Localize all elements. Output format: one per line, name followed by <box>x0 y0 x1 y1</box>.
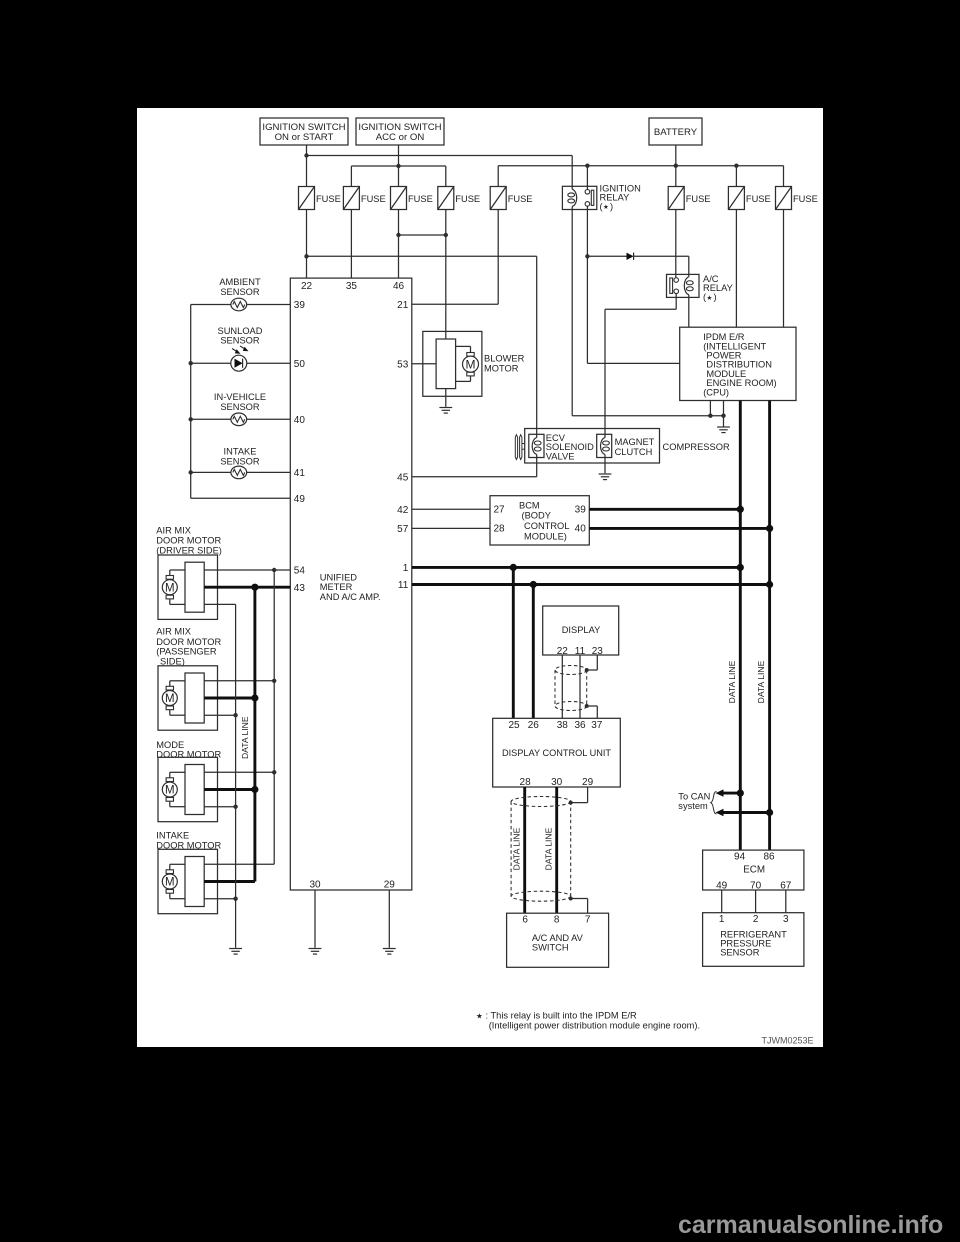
svg-text:M: M <box>466 358 476 372</box>
svg-text:39: 39 <box>294 300 306 311</box>
svg-text:RELAY: RELAY <box>703 283 733 293</box>
svg-text:28: 28 <box>520 777 532 788</box>
svg-text:(Intelligent power distributio: (Intelligent power distribution module e… <box>489 1021 700 1031</box>
svg-text:M: M <box>165 877 175 889</box>
svg-text:INTAKE: INTAKE <box>224 447 257 457</box>
svg-text:ON or START: ON or START <box>275 132 334 143</box>
svg-text:ECM: ECM <box>743 865 765 876</box>
svg-text:SENSOR: SENSOR <box>720 947 760 957</box>
svg-text:36: 36 <box>574 720 586 731</box>
svg-text:38: 38 <box>557 720 569 731</box>
svg-text:carmanualsonline.info: carmanualsonline.info <box>678 1211 943 1239</box>
svg-text:50: 50 <box>294 359 306 370</box>
svg-text:37: 37 <box>591 720 603 731</box>
svg-text:FUSE: FUSE <box>316 194 341 204</box>
svg-text:46: 46 <box>393 281 405 292</box>
svg-text:SENSOR: SENSOR <box>220 457 260 467</box>
svg-text:30: 30 <box>309 880 321 891</box>
svg-text:7: 7 <box>585 914 591 925</box>
svg-text:M: M <box>165 693 175 705</box>
svg-text:SENSOR: SENSOR <box>220 402 260 412</box>
svg-text:IGNITION SWITCH: IGNITION SWITCH <box>262 122 345 133</box>
svg-text:FUSE: FUSE <box>508 194 533 204</box>
svg-text:COMPRESSOR: COMPRESSOR <box>663 442 730 452</box>
svg-text:22: 22 <box>301 281 313 292</box>
svg-text:6: 6 <box>522 914 528 925</box>
svg-text:FUSE: FUSE <box>455 194 480 204</box>
svg-text:CLUTCH: CLUTCH <box>615 447 653 457</box>
svg-text:FUSE: FUSE <box>746 194 771 204</box>
svg-text:system: system <box>678 801 708 811</box>
svg-text:29: 29 <box>582 777 594 788</box>
svg-text:27: 27 <box>494 505 506 516</box>
svg-text:57: 57 <box>397 524 409 535</box>
svg-text:CONTROL: CONTROL <box>524 521 569 531</box>
svg-text:2: 2 <box>753 914 759 925</box>
svg-text:AIR MIX: AIR MIX <box>156 627 191 637</box>
svg-text:DOOR MOTOR: DOOR MOTOR <box>156 637 221 647</box>
svg-text:41: 41 <box>294 468 306 479</box>
svg-text:53: 53 <box>397 359 409 370</box>
svg-text:70: 70 <box>750 881 762 892</box>
svg-text:DISPLAY CONTROL UNIT: DISPLAY CONTROL UNIT <box>502 748 611 758</box>
svg-text:42: 42 <box>397 505 409 516</box>
svg-text:67: 67 <box>780 881 792 892</box>
svg-text:28: 28 <box>494 524 506 535</box>
svg-text:40: 40 <box>575 524 587 535</box>
svg-text:DOOR MOTOR: DOOR MOTOR <box>156 840 221 850</box>
svg-text:UNIFIED: UNIFIED <box>320 573 357 583</box>
svg-text:1: 1 <box>403 563 409 574</box>
svg-text:SIDE): SIDE) <box>160 656 185 666</box>
svg-text:54: 54 <box>294 566 306 577</box>
svg-text:FUSE: FUSE <box>793 194 818 204</box>
svg-text:DATA LINE: DATA LINE <box>727 660 737 703</box>
svg-text:★: ★ <box>476 1011 483 1020</box>
svg-text:DATA LINE: DATA LINE <box>512 827 522 870</box>
svg-text:: This relay is built into the: : This relay is built into the IPDM E/R <box>486 1010 638 1020</box>
svg-text:39: 39 <box>575 505 587 516</box>
svg-text:3: 3 <box>783 914 789 925</box>
svg-text:SWITCH: SWITCH <box>532 942 569 952</box>
svg-text:DISPLAY: DISPLAY <box>562 625 601 635</box>
svg-text:DATA LINE: DATA LINE <box>240 716 250 759</box>
svg-text:21: 21 <box>397 300 409 311</box>
svg-text:29: 29 <box>384 880 396 891</box>
svg-text:FUSE: FUSE <box>686 194 711 204</box>
svg-text:40: 40 <box>294 415 306 426</box>
svg-text:MAGNET: MAGNET <box>615 437 655 447</box>
svg-text:★: ★ <box>707 294 713 302</box>
svg-text:M: M <box>165 582 175 594</box>
svg-text:RELAY: RELAY <box>600 192 630 202</box>
svg-text:94: 94 <box>734 852 746 863</box>
svg-text:BCM: BCM <box>519 500 540 510</box>
svg-text:IN-VEHICLE: IN-VEHICLE <box>214 392 266 402</box>
svg-text:): ) <box>714 292 717 302</box>
svg-text:DOOR MOTOR: DOOR MOTOR <box>156 750 221 760</box>
svg-text:(PASSENGER: (PASSENGER <box>156 647 217 657</box>
svg-text:(CPU): (CPU) <box>703 387 729 397</box>
svg-text:1: 1 <box>719 914 725 925</box>
svg-text:25: 25 <box>508 720 520 731</box>
svg-text:ACC or ON: ACC or ON <box>376 132 425 143</box>
svg-text:MOTOR: MOTOR <box>484 364 519 374</box>
svg-text:30: 30 <box>551 777 563 788</box>
svg-text:DATA LINE: DATA LINE <box>756 660 766 703</box>
svg-text:8: 8 <box>554 914 560 925</box>
svg-text:MODE: MODE <box>156 740 184 750</box>
svg-text:SENSOR: SENSOR <box>220 336 260 346</box>
svg-text:AMBIENT: AMBIENT <box>219 277 261 287</box>
svg-text:★: ★ <box>603 203 609 211</box>
svg-text:AIR MIX: AIR MIX <box>156 525 191 535</box>
svg-text:): ) <box>610 201 613 211</box>
svg-text:26: 26 <box>528 720 540 731</box>
svg-text:FUSE: FUSE <box>361 194 386 204</box>
svg-text:(DRIVER SIDE): (DRIVER SIDE) <box>156 546 222 556</box>
svg-text:SENSOR: SENSOR <box>220 287 260 297</box>
svg-text:86: 86 <box>763 852 775 863</box>
svg-text:FUSE: FUSE <box>408 194 433 204</box>
svg-text:49: 49 <box>716 881 728 892</box>
svg-text:DATA LINE: DATA LINE <box>544 827 554 870</box>
svg-text:(BODY: (BODY <box>522 511 551 521</box>
svg-text:43: 43 <box>294 583 306 594</box>
svg-text:INTAKE: INTAKE <box>156 830 189 840</box>
svg-text:45: 45 <box>397 472 409 483</box>
svg-text:DOOR MOTOR: DOOR MOTOR <box>156 535 221 545</box>
svg-text:IGNITION SWITCH: IGNITION SWITCH <box>358 122 441 133</box>
svg-text:TJWM0253E: TJWM0253E <box>761 1035 813 1045</box>
svg-text:BATTERY: BATTERY <box>654 127 698 138</box>
svg-text:To CAN: To CAN <box>678 791 710 801</box>
svg-text:AND A/C AMP.: AND A/C AMP. <box>320 592 381 602</box>
svg-text:MODULE): MODULE) <box>524 531 567 541</box>
svg-text:49: 49 <box>294 494 306 505</box>
svg-text:M: M <box>165 785 175 797</box>
svg-text:11: 11 <box>398 580 409 591</box>
svg-text:BLOWER: BLOWER <box>484 353 525 363</box>
svg-text:METER: METER <box>320 582 353 592</box>
svg-text:VALVE: VALVE <box>546 452 575 462</box>
svg-text:35: 35 <box>346 281 358 292</box>
